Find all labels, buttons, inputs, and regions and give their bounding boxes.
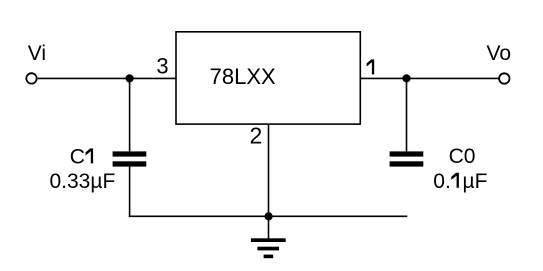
svg-text:2: 2	[250, 123, 263, 149]
reference label C1	[70, 145, 93, 168]
terminal Vi (input open circle)	[26, 73, 36, 83]
svg-text:Vo: Vo	[487, 42, 512, 65]
junction node input/C1	[126, 74, 134, 82]
ground	[251, 238, 286, 258]
wire pin 2 to ground rail	[268, 124, 270, 216]
wire C0 upper lead	[406, 78, 408, 151]
wire pin 1 to Vo terminal	[360, 77, 500, 79]
svg-text:C: C	[70, 145, 85, 168]
junction node output/C0	[402, 74, 410, 82]
op-amp U1 box 78LXX regulator	[176, 32, 360, 124]
value label 0.1uF	[433, 170, 487, 193]
svg-text:C0: C0	[449, 145, 476, 168]
junction node ground rail	[265, 212, 273, 220]
capacitor C0	[390, 151, 424, 166]
svg-text:Vi: Vi	[28, 42, 46, 65]
capacitor C1	[113, 151, 147, 166]
svg-text:3: 3	[156, 54, 168, 79]
svg-text:0.33µF: 0.33µF	[49, 170, 115, 193]
pin label 1	[367, 59, 375, 74]
svg-text:µF: µF	[463, 170, 488, 193]
svg-text:0.: 0.	[433, 170, 451, 193]
terminal Vo (output open circle)	[499, 73, 509, 83]
svg-text:78LXX: 78LXX	[210, 64, 276, 89]
wire Vi terminal to pin 3	[38, 77, 177, 79]
wire C1 lower lead	[129, 166, 131, 217]
wire C1 upper lead	[129, 78, 131, 151]
wire ground stem	[268, 216, 270, 238]
wire bottom ground rail	[129, 215, 408, 217]
